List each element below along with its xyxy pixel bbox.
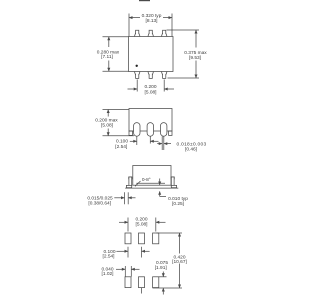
svg-text:[8.13]: [8.13] — [145, 18, 157, 24]
svg-text:[5.08]: [5.08] — [101, 123, 113, 129]
svg-text:[10.67]: [10.67] — [172, 259, 187, 265]
svg-text:0.015/0.025: 0.015/0.025 — [87, 195, 113, 201]
svg-text:0.100: 0.100 — [116, 139, 128, 145]
svg-text:[2.54]: [2.54] — [115, 144, 127, 150]
svg-text:0.018±0.003: 0.018±0.003 — [177, 141, 207, 147]
svg-text:[1.91]: [1.91] — [155, 265, 167, 271]
svg-text:[5.08]: [5.08] — [135, 221, 147, 227]
svg-text:0.075: 0.075 — [156, 260, 168, 266]
svg-text:[1.02]: [1.02] — [101, 271, 113, 277]
svg-text:[0.25]: [0.25] — [172, 201, 184, 207]
svg-text:0.200: 0.200 — [144, 84, 156, 90]
svg-text:[5.08]: [5.08] — [144, 90, 156, 96]
svg-text:0.010 typ: 0.010 typ — [168, 196, 188, 202]
svg-text:[9.53]: [9.53] — [189, 55, 201, 61]
svg-text:0-8°: 0-8° — [142, 177, 151, 183]
svg-text:[2.54]: [2.54] — [102, 253, 114, 259]
svg-text:[0.38/0.64]: [0.38/0.64] — [88, 200, 111, 206]
svg-text:[7.11]: [7.11] — [101, 54, 113, 60]
svg-text:[0.46]: [0.46] — [185, 147, 197, 153]
